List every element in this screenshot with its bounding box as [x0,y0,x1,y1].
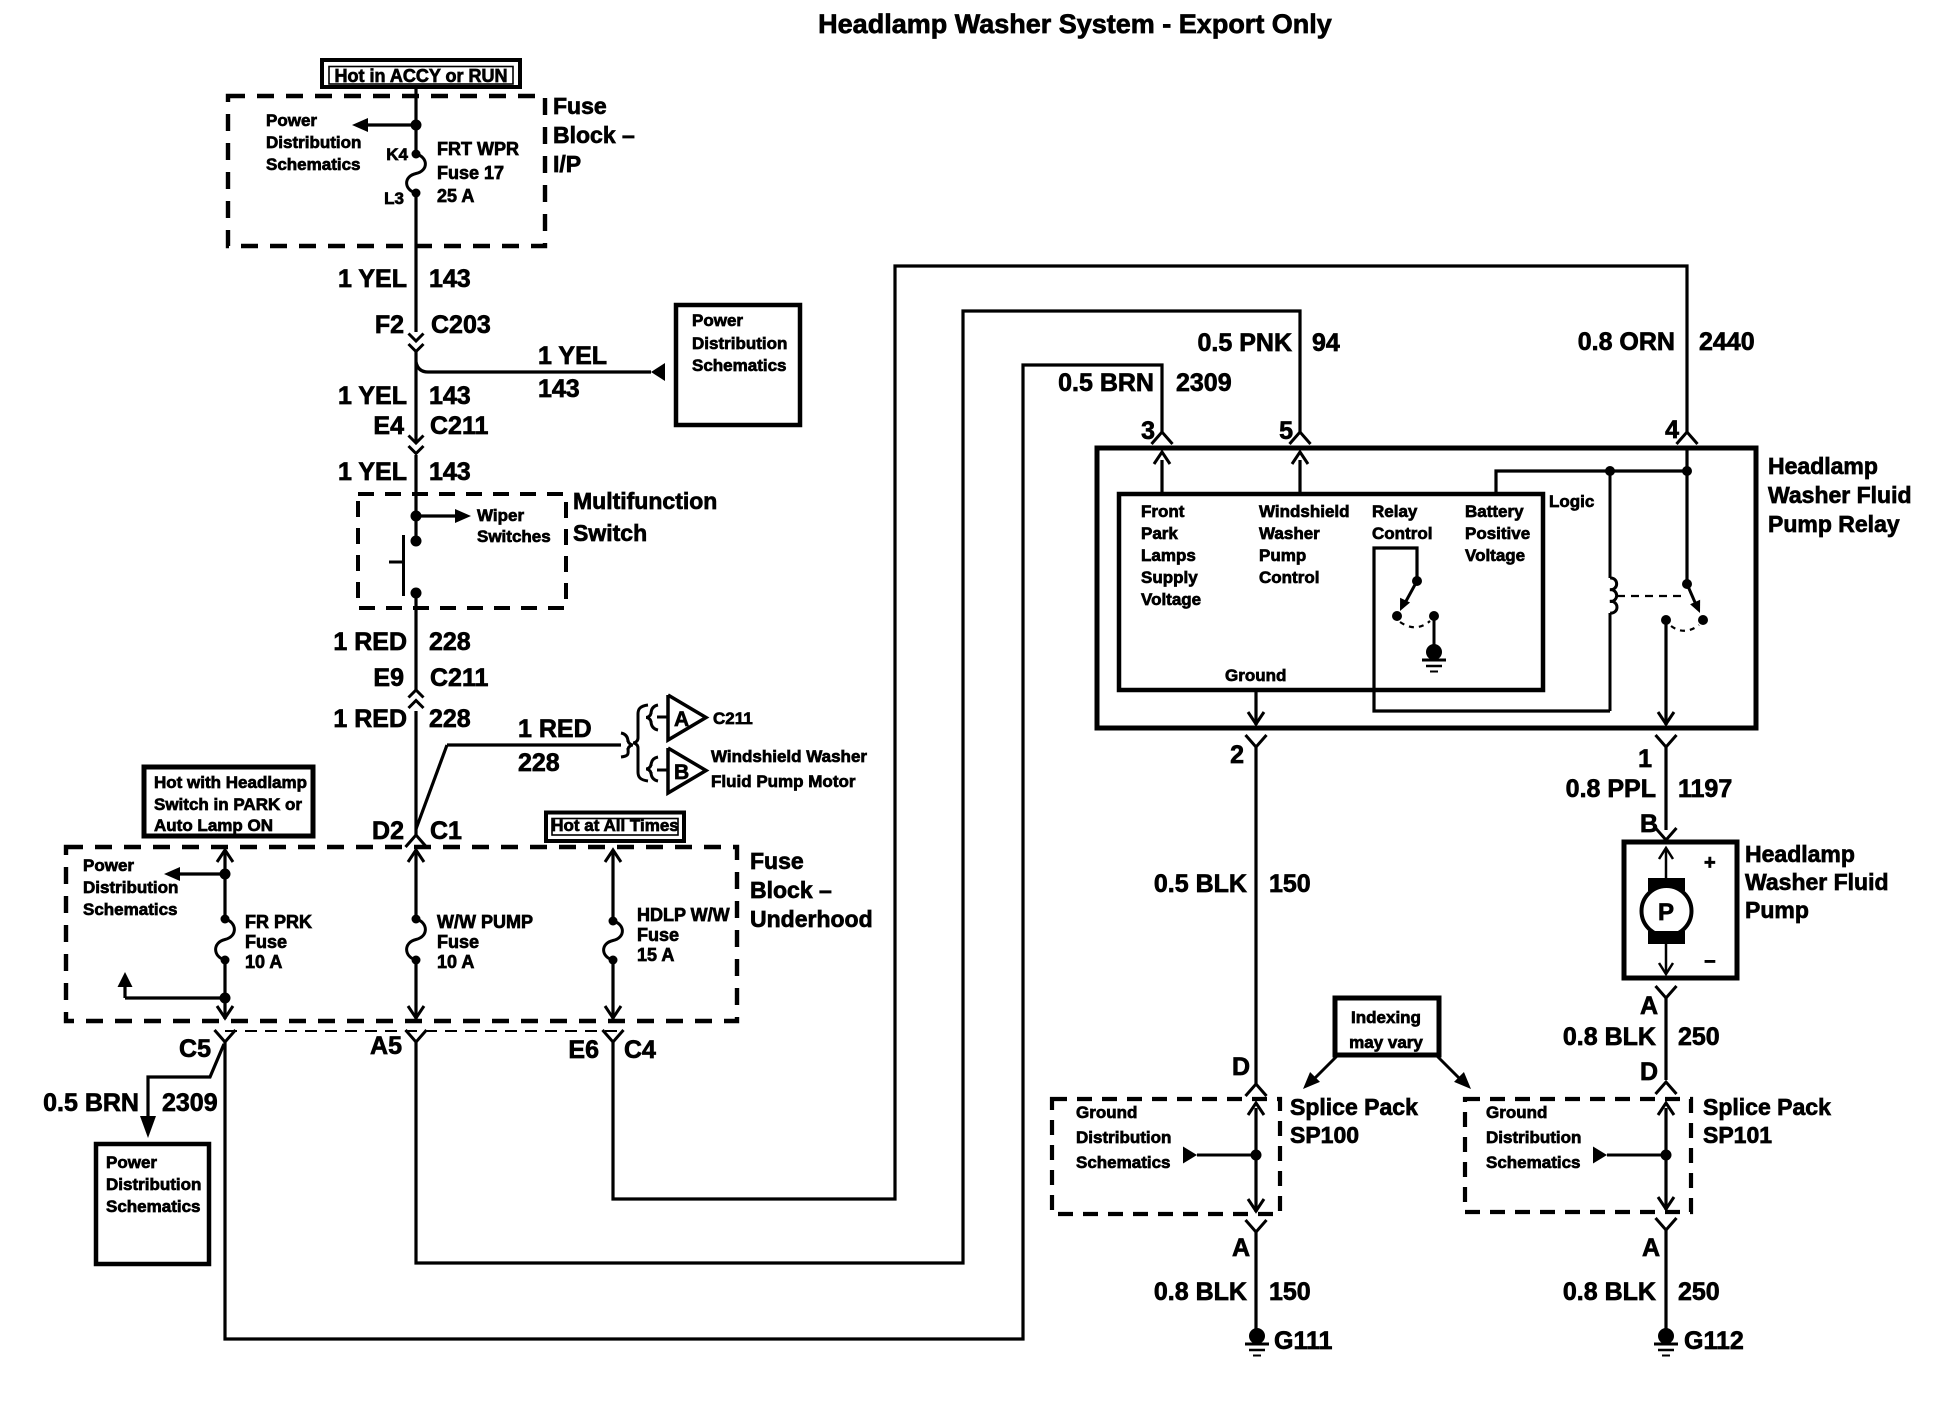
svg-text:Schematics: Schematics [83,900,178,919]
svg-text:Underhood: Underhood [750,906,873,932]
svg-text:Distribution: Distribution [266,133,361,152]
fuse block I/P dashed box [228,96,545,246]
svg-text:W/W PUMP: W/W PUMP [437,912,533,932]
wire: SP100 to G111 (0.8 BLK 150) [1254,1232,1257,1329]
svg-text:B: B [1640,810,1658,838]
svg-text:E6: E6 [568,1036,599,1064]
wire: lower branch with up arrow [125,996,225,999]
relay control dashed arc [1400,621,1430,627]
connector C5 [215,1030,236,1042]
svg-text:C211: C211 [430,412,488,440]
wire: HDLP to C4 [611,960,614,1019]
switch dashed arc [1671,625,1699,631]
relay coil [1610,578,1617,613]
pin 4 wire into switch [1685,448,1688,584]
svg-text:Headlamp: Headlamp [1768,453,1878,479]
brace B [646,757,658,781]
svg-text:+: + [1704,852,1716,874]
ground G111 [1249,1328,1265,1344]
wire: branch to power distribution schematics [368,123,416,126]
svg-text:1 YEL: 1 YEL [338,458,407,486]
svg-text:250: 250 [1678,1278,1720,1306]
svg-text:Schematics: Schematics [1486,1153,1581,1172]
wire: branch left to power dist [180,872,225,875]
svg-text:Schematics: Schematics [106,1197,201,1216]
relay control circuit wire [1374,548,1610,711]
svg-text:Pump Relay: Pump Relay [1768,511,1900,537]
svg-text:Relay: Relay [1372,502,1418,521]
wire: below C203 [414,352,417,442]
svg-text:Schematics: Schematics [266,155,361,174]
wire: W/W PUMP to A5 [414,960,417,1019]
svg-text:0.5 BRN: 0.5 BRN [1058,369,1154,397]
wire: contact to pin 1 [1664,620,1667,725]
svg-text:A5: A5 [370,1032,402,1060]
svg-text:FR PRK: FR PRK [245,912,312,932]
node: pin4 junction [1682,466,1692,476]
svg-text:250: 250 [1678,1023,1720,1051]
svg-text:10 A: 10 A [245,952,282,972]
connector strip dashed line [225,1030,622,1032]
svg-text:Fuse: Fuse [553,93,607,119]
svg-text:SP100: SP100 [1290,1122,1359,1148]
wire: C211 to multifunction switch [414,455,417,541]
svg-text:C5: C5 [179,1035,211,1063]
svg-text:Switch: Switch [573,520,647,546]
svg-text:Headlamp Washer System - Expor: Headlamp Washer System - Export Only [818,9,1332,39]
svg-text:4: 4 [1665,416,1679,444]
node: coil tap [1605,466,1615,476]
node: junction to wiper switches [411,511,422,522]
trumpet: off-page to power distribution schematics [651,363,665,381]
svg-text:Splice Pack: Splice Pack [1703,1094,1831,1120]
svg-text:2: 2 [1230,741,1244,769]
splice brace small right [621,733,633,757]
label box: Indexing may vary [1335,998,1439,1055]
pump box [1624,842,1737,978]
svg-text:−: − [1704,951,1716,973]
splice node SP100 [1251,1150,1262,1161]
connector A below pump [1656,986,1677,998]
svg-text:Battery: Battery [1465,502,1524,521]
arrow: indexing to SP100 [1315,1056,1337,1078]
switch contact bottom [411,588,422,599]
svg-text:I/P: I/P [553,151,581,177]
pump return arrow [1665,944,1668,973]
svg-text:D: D [1640,1058,1658,1086]
svg-text:0.5 BRN: 0.5 BRN [43,1089,139,1117]
coil-switch dashed link [1617,595,1681,597]
SP101 entry arrow [1664,1108,1667,1210]
svg-text:Ground: Ground [1076,1103,1137,1122]
svg-text:Washer: Washer [1259,524,1320,543]
svg-text:Distribution: Distribution [106,1175,201,1194]
wire: E9 to D2 [414,711,417,836]
svg-text:Splice Pack: Splice Pack [1290,1094,1418,1120]
connector A below SP100 [1246,1220,1267,1232]
svg-text:B: B [674,761,689,784]
svg-text:Hot at All Times: Hot at All Times [551,816,679,835]
box: Power Distribution Schematics (bottom left) [96,1144,209,1264]
HDLP W/W feed arrow [605,850,621,862]
internal ground symbol [1426,644,1442,660]
wire: SP101 to G112 (0.8 BLK 250) [1664,1230,1667,1329]
svg-text:143: 143 [538,375,580,403]
svg-text:A: A [1640,992,1658,1020]
svg-text:G111: G111 [1274,1327,1332,1355]
svg-text:Fuse: Fuse [245,932,287,952]
svg-text:Multifunction: Multifunction [573,488,717,514]
trumpet to ground distribution (SP101) [1593,1147,1607,1164]
node: junction to power distribution [411,120,422,131]
wire: A5 to relay pin 5 (0.5 PNK 94) [416,311,1300,1263]
svg-text:C211: C211 [713,709,753,728]
svg-text:Logic: Logic [1549,492,1594,511]
svg-text:C203: C203 [431,311,491,339]
relay control blade [1405,581,1417,603]
svg-text:L3: L3 [384,189,404,208]
svg-text:P: P [1658,899,1674,926]
FR PRK feed arrow [217,850,233,862]
svg-text:1: 1 [1638,745,1652,773]
svg-text:Fuse: Fuse [637,925,679,945]
svg-text:Fuse: Fuse [437,932,479,952]
wire: trumpet to splice node [1197,1154,1256,1157]
svg-text:Switches: Switches [477,527,551,546]
svg-text:Voltage: Voltage [1465,546,1525,565]
svg-text:1 YEL: 1 YEL [338,382,407,410]
W/W PUMP feed arrow [408,850,424,862]
svg-text:Headlamp: Headlamp [1745,841,1855,867]
svg-text:Washer Fluid: Washer Fluid [1745,869,1889,895]
svg-text:A: A [1642,1234,1660,1262]
wire: fuse to connector C203 [414,193,417,332]
svg-text:Block –: Block – [750,877,832,903]
svg-text:SP101: SP101 [1703,1122,1772,1148]
wire: pump to SP101 (0.8 BLK 250) [1664,998,1667,1080]
pin 1 connector [1656,735,1677,747]
svg-text:Switch in PARK or: Switch in PARK or [154,795,302,814]
relay control ground contact [1429,611,1439,621]
svg-text:1 YEL: 1 YEL [538,342,607,370]
svg-text:0.8 BLK: 0.8 BLK [1563,1023,1656,1051]
svg-text:25 A: 25 A [437,186,474,206]
SP100 entry arrow [1254,1108,1257,1212]
pin 5 arrow into relay [1298,460,1301,492]
svg-text:Ground: Ground [1486,1103,1547,1122]
svg-text:Pump: Pump [1745,897,1809,923]
brace A [646,705,658,730]
box: Power Distribution Schematics (right) [676,305,800,425]
svg-text:10 A: 10 A [437,952,474,972]
svg-text:Block –: Block – [553,122,635,148]
svg-text:Control: Control [1259,568,1319,587]
splice brace big left [633,705,648,781]
connector triangle B [668,748,706,793]
svg-text:0.5 BLK: 0.5 BLK [1154,870,1247,898]
svg-text:Front: Front [1141,502,1185,521]
relay inner box [1119,494,1543,690]
svg-text:C4: C4 [624,1036,656,1064]
svg-text:150: 150 [1269,870,1311,898]
svg-text:1 YEL: 1 YEL [338,265,407,293]
switch blade (open) [402,535,405,596]
svg-text:228: 228 [429,628,471,656]
arrow: down to power dist schematics [140,1116,156,1138]
connector C4 terminal E6 [603,1030,624,1042]
svg-text:Schematics: Schematics [1076,1153,1171,1172]
svg-text:0.8 PPL: 0.8 PPL [1566,775,1656,803]
svg-text:0.8 BLK: 0.8 BLK [1563,1278,1656,1306]
svg-text:E9: E9 [373,664,404,692]
splice node SP101 [1661,1150,1672,1161]
svg-text:Washer Fluid: Washer Fluid [1768,482,1912,508]
wire: pin 1 to pump (0.8 PPL 1197) [1664,747,1667,830]
wire: feed into fuse block [414,87,417,154]
wire: FR PRK to C5 [223,960,226,1019]
trumpet to ground distribution (SP100) [1183,1147,1197,1164]
svg-text:Voltage: Voltage [1141,590,1201,609]
node: junction FR PRK lower [220,993,231,1004]
svg-text:D2: D2 [372,817,404,845]
coil wire lower [1609,613,1612,711]
relay outer box [1097,448,1756,728]
wire: pin 2 to SP100 (0.5 BLK 150) [1254,747,1257,1084]
svg-text:HDLP W/W: HDLP W/W [637,905,730,925]
label box: Hot with Headlamp Switch in PARK or Auto Lamp ON [144,767,313,836]
arrow: up (power distribution) [118,972,133,987]
connector triangle A (C211) [668,695,706,740]
svg-text:Schematics: Schematics [692,356,787,375]
fuse HDLP W/W 15A [609,917,618,926]
svg-text:Hot in ACCY or RUN: Hot in ACCY or RUN [335,66,508,86]
svg-text:Hot with Headlamp: Hot with Headlamp [154,773,307,792]
connector A below SP101 [1656,1218,1677,1230]
svg-text:0.8 BLK: 0.8 BLK [1154,1278,1247,1306]
fuse block underhood dashed box [66,847,737,1021]
svg-text:1 RED: 1 RED [333,705,407,733]
splice pack SP101 dashed box [1465,1099,1691,1212]
svg-text:K4: K4 [386,145,408,164]
wire: trumpet to splice node SP101 [1607,1154,1666,1157]
svg-text:143: 143 [429,265,471,293]
svg-text:2309: 2309 [162,1089,218,1117]
svg-text:A: A [1232,1234,1250,1262]
svg-text:FRT WPR: FRT WPR [437,139,519,159]
svg-text:Windshield: Windshield [1259,502,1350,521]
pin 3 arrow into relay [1160,460,1163,492]
svg-text:0.5 PNK: 0.5 PNK [1198,329,1292,357]
svg-text:Pump: Pump [1259,546,1306,565]
stub to connector A [657,716,668,719]
switch pivot [1682,579,1692,589]
pump motor symbol [1648,878,1685,891]
label box: Hot at All Times [546,813,684,842]
svg-text:1 RED: 1 RED [518,715,592,743]
svg-text:Supply: Supply [1141,568,1198,587]
relay control contact [1392,611,1402,621]
svg-text:143: 143 [429,382,471,410]
svg-text:0.8 ORN: 0.8 ORN [1578,328,1675,356]
switch blade [1687,584,1697,607]
wire: C5 tap diagonal to 2309 branch [148,1044,224,1116]
svg-text:Distribution: Distribution [1076,1128,1171,1147]
label box: Hot in ACCY or RUN [322,60,520,87]
switch contact right [1698,615,1708,625]
pin 2 connector [1246,735,1267,747]
SP101 exit arrow [1658,1197,1674,1209]
svg-text:2440: 2440 [1699,328,1755,356]
SP100 exit arrow [1248,1199,1264,1211]
svg-text:Lamps: Lamps [1141,546,1196,565]
wire: branch to power distribution (1 YEL 143) [416,362,651,372]
svg-text:150: 150 [1269,1278,1311,1306]
svg-text:Power: Power [692,311,743,330]
relay control pivot [1412,576,1422,586]
svg-text:Windshield Washer: Windshield Washer [711,747,867,766]
svg-text:A: A [674,708,689,731]
svg-text:Fuse 17: Fuse 17 [437,163,504,183]
svg-text:G112: G112 [1684,1327,1744,1355]
connector A5 [406,1030,427,1042]
svg-text:D: D [1232,1053,1250,1081]
svg-text:Power: Power [83,856,134,875]
wire: E6/C4 to relay pin 4 (0.8 ORN 2440) [613,266,1687,1199]
svg-text:1 RED: 1 RED [333,628,407,656]
svg-text:Control: Control [1372,524,1432,543]
svg-text:C211: C211 [430,664,488,692]
switch contact top [411,536,422,547]
wire: switch to E9 [414,593,417,690]
arrow: to power distribution schematics [352,118,368,132]
svg-text:Fuse: Fuse [750,848,804,874]
ground G112 [1658,1328,1674,1344]
svg-text:228: 228 [429,705,471,733]
wire: to wiper switches arrow [416,514,456,517]
svg-text:15 A: 15 A [637,945,674,965]
svg-text:Positive: Positive [1465,524,1530,543]
svg-text:1197: 1197 [1678,775,1732,803]
fuse FRT WPR Fuse 17 25A symbol [412,150,421,159]
arrow: indexing to SP101 [1437,1056,1459,1078]
svg-text:E4: E4 [373,412,404,440]
pump feed arrow [1665,849,1668,879]
battery positive feed wire [1496,471,1687,492]
svg-text:228: 228 [518,749,560,777]
wire to internal ground [1433,616,1436,645]
svg-text:Fluid Pump Motor: Fluid Pump Motor [711,772,856,791]
svg-text:Power: Power [106,1153,157,1172]
multifunction switch dashed box [358,494,566,608]
svg-text:Park: Park [1141,524,1178,543]
svg-text:F2: F2 [375,311,404,339]
arrow: wiper switches [455,509,471,523]
splice pack SP100 dashed box [1052,1099,1280,1214]
svg-text:Indexing: Indexing [1351,1008,1421,1027]
fuse FR PRK 10A [221,915,230,924]
switch contact left (to pin 1) [1661,615,1671,625]
arrow: to power distribution schematics (left) [164,867,180,881]
ground pin wire [1254,690,1257,725]
fuse W/W PUMP 10A [412,915,421,924]
svg-text:C1: C1 [430,817,462,845]
wire: C5 to relay pin 3 (0.5 BRN 2309) [225,365,1162,1339]
svg-text:Wiper: Wiper [477,506,524,525]
svg-text:Ground: Ground [1225,666,1286,685]
wire: branch to washer pump motor (1 RED 228) [416,745,447,829]
svg-text:Power: Power [266,111,317,130]
svg-text:143: 143 [429,458,471,486]
svg-text:Distribution: Distribution [83,878,178,897]
coil wire upper [1609,471,1612,578]
svg-text:94: 94 [1312,329,1340,357]
svg-text:Distribution: Distribution [1486,1128,1581,1147]
svg-text:2309: 2309 [1176,369,1232,397]
stub to connector B [657,769,668,772]
svg-text:may vary: may vary [1349,1033,1423,1052]
node: junction FR PRK to power dist [220,869,231,880]
svg-text:Distribution: Distribution [692,334,787,353]
svg-text:Auto Lamp ON: Auto Lamp ON [154,816,273,835]
